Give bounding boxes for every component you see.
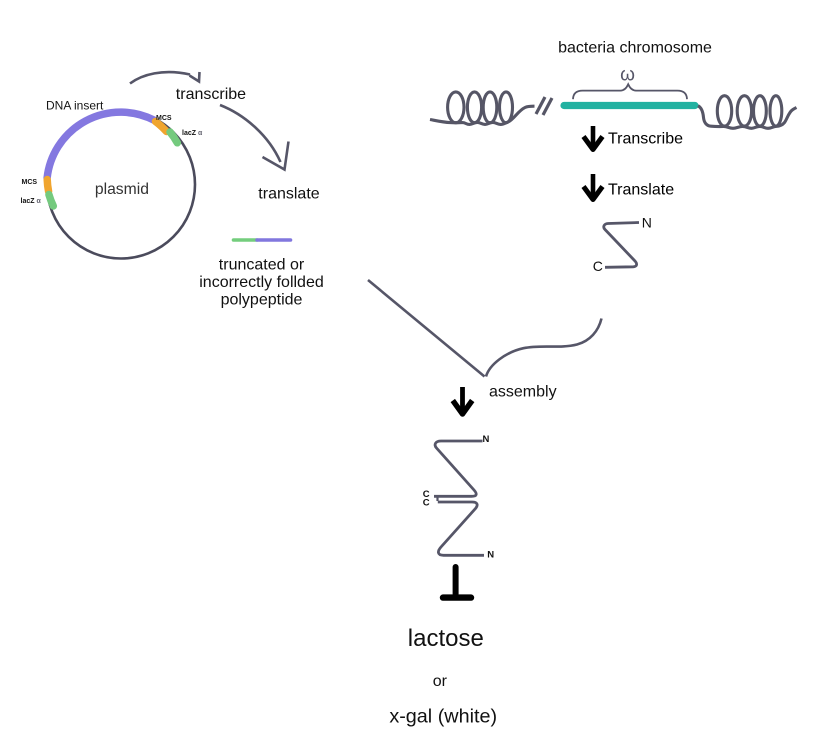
plasmid circle [47,111,195,259]
svg-text:DNA insert: DNA insert [46,98,104,112]
svg-text:lacZ α: lacZ α [21,198,42,205]
MCS orange arc left [47,180,48,192]
lactose inhibition tee symbol [453,567,459,594]
lacZ green arc left [49,195,53,207]
svg-text:N: N [642,214,652,230]
svg-text:x-gal (white): x-gal (white) [389,705,497,727]
lacZ omega teal bar [564,102,695,109]
MCS orange arc right [156,122,167,132]
svg-text:Transcribe: Transcribe [608,130,683,147]
svg-text:lactose: lactose [408,625,484,652]
svg-text:MCS: MCS [22,179,38,186]
svg-text:polypeptide: polypeptide [221,292,303,309]
connector from truncated polypeptide to assembly [368,280,485,377]
connector from alpha fragment to assembly [486,319,602,377]
svg-text:translate: translate [258,186,319,203]
transcribe-to-translate curved arrow [220,105,281,162]
transcribe curved arrow [130,72,190,83]
Translate bold arrow [591,174,596,196]
svg-text:assembly: assembly [489,384,557,401]
assembly bold arrow [460,387,465,410]
svg-text:C: C [593,258,603,274]
svg-text:C: C [423,498,430,509]
alpha fragment squiggle [604,223,639,268]
svg-text:bacteria chromosome: bacteria chromosome [558,40,712,57]
svg-text:incorrectly follded: incorrectly follded [199,274,324,291]
svg-text:plasmid: plasmid [95,181,149,198]
assembled protein lower fragment [438,502,484,555]
svg-text:lacZ α: lacZ α [182,130,203,137]
chromosome break slashes [536,97,545,114]
brace over omega region [573,84,687,99]
assembled protein upper fragment [434,441,483,496]
svg-text:ω: ω [620,64,635,85]
right DNA coil [698,96,797,129]
svg-text:truncated or: truncated or [219,257,305,274]
svg-text:Translate: Translate [608,182,674,199]
svg-text:N: N [483,434,490,445]
DNA insert purple arc [47,112,154,178]
lacZ green arc right [170,132,177,143]
svg-text:transcribe: transcribe [176,86,246,103]
svg-text:MCS: MCS [156,115,172,122]
Transcribe bold arrow [591,126,596,146]
truncated polypeptide green half bar [234,238,258,242]
junction tick between fragments [436,497,438,501]
svg-text:or: or [433,673,448,690]
left DNA coil [430,92,535,125]
svg-text:N: N [487,549,494,560]
truncated polypeptide purple half bar [257,238,291,242]
